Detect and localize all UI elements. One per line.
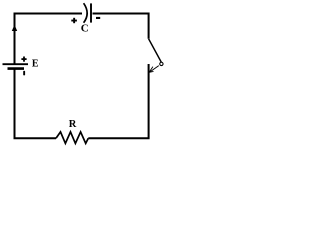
svg-text:E: E [32,58,39,69]
svg-text:C: C [81,23,89,35]
svg-text:R: R [69,119,77,130]
